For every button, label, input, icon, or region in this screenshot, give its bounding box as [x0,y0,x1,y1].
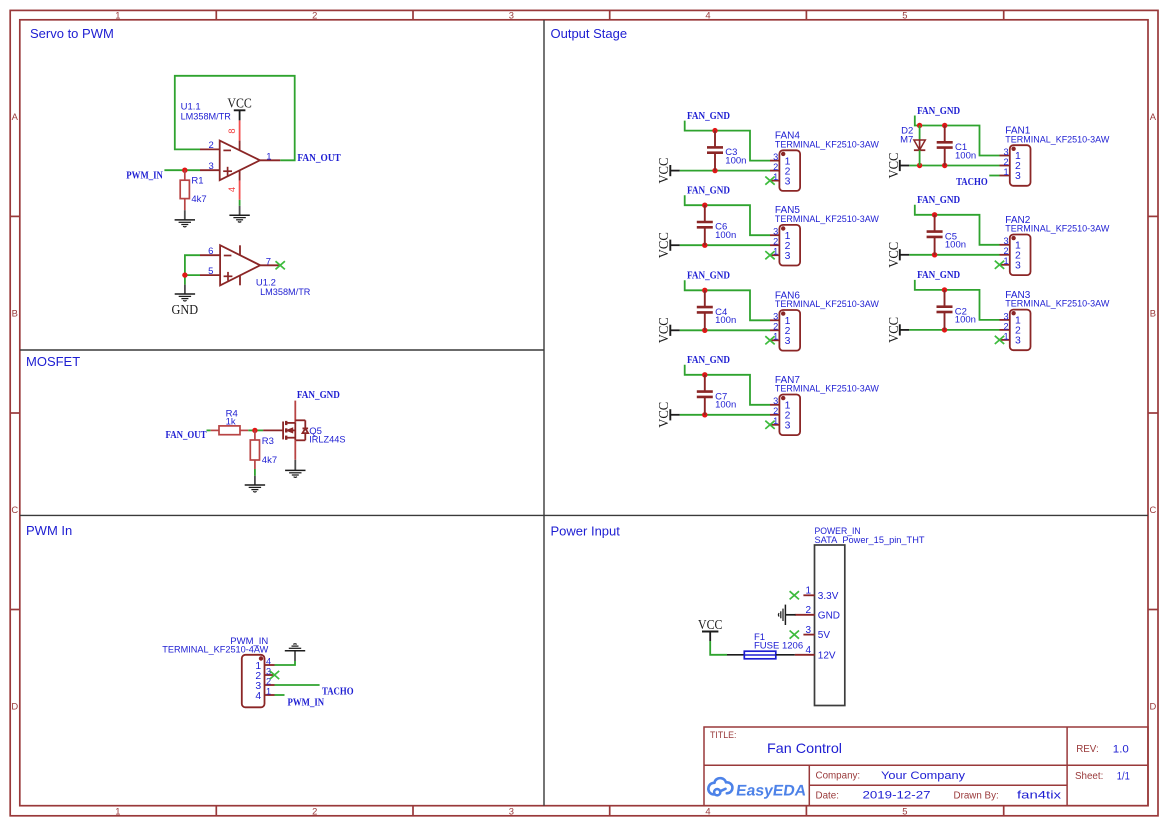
capacitor C7 [704,375,706,392]
connector PWM_IN inside pin numbers [255,661,261,702]
wire TACHO to FAN1 pin1 [989,175,999,177]
junction C4 bottom [702,328,707,333]
svg-text:4: 4 [705,805,710,816]
ground at POWER_IN pin2 (rotated) [786,614,796,616]
svg-text:5: 5 [902,805,907,816]
diode D2 junction bottom [917,163,922,168]
svg-text:FAN_OUT: FAN_OUT [166,430,207,441]
connector FAN5 outside pin numbers [773,227,778,257]
connector FAN5 inside pin numbers [785,231,791,262]
svg-text:GND: GND [172,303,199,318]
wire U1.1 pin4 to ground [239,200,241,206]
connector PWM_IN body [242,655,265,708]
svg-text:PWM_IN: PWM_IN [126,170,163,181]
wire to GND symbol [184,285,186,294]
svg-text:6: 6 [208,246,213,257]
svg-text:FAN_GND: FAN_GND [917,195,960,206]
svg-text:PWM_IN: PWM_IN [288,698,325,709]
svg-text:3: 3 [1015,336,1021,347]
connector FAN4 inside pin numbers [785,156,791,187]
svg-text:LM358M/TR: LM358M/TR [181,111,232,121]
connector FAN3 pin stubs [1000,320,1010,340]
wire FAN_GND net of FAN6 [685,280,770,320]
wire TACHO from pin2 [275,684,320,686]
capacitor C4 [704,290,706,307]
no-connect flag U1.2 pin 7 [276,261,285,269]
transistor Q5 (N-MOSFET) [283,420,308,440]
svg-text:Drawn By:: Drawn By: [954,791,999,802]
svg-text:A: A [1150,111,1157,122]
wire VCC net of FAN1 [909,165,999,167]
wire VCC net of FAN3 [909,329,999,331]
capacitor C1 [944,126,946,143]
connector FAN6 outside pin numbers [773,312,778,342]
svg-text:2: 2 [1003,321,1008,331]
svg-text:R1: R1 [191,176,203,187]
EasyEDA logo cloud [708,778,732,795]
U1.1 minus sign [223,149,231,151]
no-connect flag FAN6 pin1 [765,336,774,344]
wire VCC to fuse [710,641,727,655]
title block frame [704,727,1148,806]
wire R4 to gate [248,429,263,431]
connector FAN1 body [1010,145,1031,186]
junction C2 top [942,287,947,292]
svg-text:TERMINAL_KF2510-3AW: TERMINAL_KF2510-3AW [775,299,879,309]
svg-text:3: 3 [785,176,791,187]
svg-text:C: C [11,504,18,515]
ground below U1.1 pin 4 [229,215,249,222]
svg-text:TERMINAL_KF2510-3AW: TERMINAL_KF2510-3AW [1005,224,1109,234]
svg-text:SATA_Power_15_pin_THT: SATA_Power_15_pin_THT [815,535,925,545]
svg-text:4: 4 [227,187,237,192]
svg-text:2: 2 [773,162,778,172]
wire FAN_GND net of FAN3 [915,280,1000,320]
connector FAN5 pin1 marker dot [781,226,785,230]
section divider vertical [543,20,545,806]
junction C5 top [932,212,937,217]
connector FAN3 inside pin numbers [1015,316,1021,347]
wire FAN_GND net of FAN4 [685,121,770,161]
svg-text:D: D [11,701,18,712]
connector FAN5 body [779,225,800,266]
connector FAN7 body [779,395,800,436]
svg-text:M7: M7 [900,135,913,146]
svg-text:100n: 100n [715,230,736,241]
connector PWM_IN pin stubs [265,665,275,695]
ground below R1 [175,220,195,227]
svg-text:2: 2 [773,237,778,247]
svg-text:3: 3 [1003,311,1008,321]
connector FAN7 outside pin numbers [773,396,778,426]
POWER_IN pin stubs [795,595,815,655]
svg-text:3: 3 [805,625,811,636]
svg-text:A: A [12,111,19,122]
svg-text:Output Stage: Output Stage [551,26,628,41]
svg-text:3: 3 [773,396,778,406]
svg-text:5: 5 [902,10,907,21]
junction at R1 top [182,168,187,173]
svg-text:R3: R3 [262,436,274,447]
connector FAN1 inside pin numbers [1015,151,1021,182]
wire feedback loop net FAN_OUT (green rect) [175,76,295,161]
svg-text:3: 3 [209,161,214,172]
svg-text:EasyEDA: EasyEDA [735,783,807,800]
op-amp U1.2 [220,245,260,285]
connector FAN2 inside pin numbers [1015,241,1021,272]
connector POWER_IN body [815,545,845,706]
section divider middle horizontal [20,514,1148,516]
svg-text:100n: 100n [945,240,966,251]
wire pin4 to ground [275,661,296,665]
svg-text:TERMINAL_KF2510-3AW: TERMINAL_KF2510-3AW [775,214,879,224]
svg-text:TITLE:: TITLE: [710,730,736,740]
resistor R4 [211,429,219,431]
ground below Q5 source [285,470,305,477]
frame row letters [11,111,1156,711]
svg-text:2: 2 [773,322,778,332]
svg-text:FAN_GND: FAN_GND [917,106,960,117]
svg-text:1: 1 [805,586,811,597]
no-connect flag FAN3 pin1 [995,336,1004,344]
junction C2 bottom [942,327,947,332]
svg-text:FAN_GND: FAN_GND [297,390,340,401]
connector FAN2 pin stubs [1000,245,1010,265]
svg-text:C: C [1150,504,1157,515]
no-connect flag PWM_IN pin3 [270,671,279,679]
POWER_IN pin names [818,591,840,662]
svg-text:5V: 5V [818,630,831,641]
svg-text:TACHO: TACHO [956,177,988,188]
svg-text:FAN_GND: FAN_GND [687,111,730,122]
svg-text:MOSFET: MOSFET [26,354,80,369]
svg-text:2: 2 [1003,157,1008,167]
junction R4/R3/gate [252,428,257,433]
svg-text:4k7: 4k7 [262,455,277,466]
ground above PWM_IN pin4 (inverted) [285,644,305,651]
junction U1.2 pin5 [182,272,187,277]
ground below R3 [245,485,265,492]
svg-text:D: D [1150,701,1157,712]
connector FAN7 pin1 marker dot [781,396,785,400]
op-amp U1.1 [220,141,260,181]
connector FAN3 outside pin numbers [1003,311,1008,341]
svg-text:IRLZ44S: IRLZ44S [309,434,345,444]
svg-text:3.3V: 3.3V [818,591,839,602]
Q5 source wire [294,440,296,460]
capacitor C3 [714,131,716,148]
connector FAN6 pin1 marker dot [781,311,785,315]
svg-text:7: 7 [266,257,271,268]
U1.1 plus sign [223,167,232,176]
svg-text:FUSE 1206: FUSE 1206 [754,640,803,651]
svg-text:B: B [12,308,18,319]
svg-text:1/1: 1/1 [1117,770,1130,782]
svg-text:fan4tix: fan4tix [1017,790,1062,802]
svg-text:100n: 100n [715,315,736,326]
connector FAN5 pin stubs [770,235,779,255]
svg-text:Your Company: Your Company [881,770,966,782]
U1.2 plus sign [224,272,233,281]
wire VCC net of FAN5 [680,244,770,246]
U1.2 pin 6 stub [200,254,220,256]
connector FAN1 pin1 marker dot [1011,147,1015,151]
svg-text:1: 1 [266,686,271,696]
svg-text:2: 2 [312,10,317,21]
svg-text:3: 3 [773,227,778,237]
svg-text:100n: 100n [725,155,746,166]
diode D2 [919,126,921,141]
svg-text:3: 3 [773,152,778,162]
svg-text:100n: 100n [715,400,736,411]
Q5 gate pin stub [263,429,283,431]
connector FAN2 pin1 marker dot [1011,236,1015,240]
connector FAN4 pin1 marker dot [781,152,785,156]
connector FAN6 pin stubs [770,320,779,340]
svg-text:PWM In: PWM In [26,523,72,538]
svg-text:4: 4 [805,645,811,656]
svg-text:Sheet:: Sheet: [1075,771,1103,782]
junction C7 bottom [702,412,707,417]
svg-text:4: 4 [705,10,710,21]
junction C3 bottom [712,168,717,173]
svg-text:FAN_GND: FAN_GND [687,355,730,366]
svg-text:TERMINAL_KF2510-3AW: TERMINAL_KF2510-3AW [775,139,879,149]
svg-text:3: 3 [509,805,514,816]
connector FAN6 inside pin numbers [785,316,791,347]
wire VCC net of FAN6 [680,329,770,331]
svg-text:2: 2 [805,605,811,616]
svg-text:3: 3 [785,251,791,262]
svg-text:1: 1 [115,805,120,816]
wire VCC net of FAN7 [680,414,770,416]
svg-text:5: 5 [208,266,213,277]
wire U1.2 feedback [185,255,200,284]
junction C6 bottom [702,243,707,248]
wire VCC net of FAN2 [909,254,999,256]
svg-text:TERMINAL_KF2510-3AW: TERMINAL_KF2510-3AW [775,384,879,394]
svg-text:4k7: 4k7 [191,194,206,205]
svg-text:REV:: REV: [1076,744,1099,755]
U1.1 pin 2 stub [200,148,220,150]
svg-text:TERMINAL_KF2510-3AW: TERMINAL_KF2510-3AW [1005,299,1109,309]
connector FAN2 body [1010,235,1031,276]
svg-text:3: 3 [509,10,514,21]
svg-text:FAN_OUT: FAN_OUT [297,153,340,164]
resistor R3 [254,430,256,440]
junction C7 top [702,372,707,377]
fuse F1 [727,654,744,656]
U1.1 pin 8 wire (red) [239,120,241,140]
no-connect flag POWER_IN pin1 [790,591,799,599]
no-connect flag FAN7 pin1 [765,421,774,429]
U1.2 pin 7 output stub [260,264,280,266]
svg-text:LM358M/TR: LM358M/TR [260,287,311,297]
svg-text:3: 3 [1003,236,1008,246]
svg-text:1k: 1k [226,416,236,427]
svg-text:3: 3 [1015,171,1021,182]
connector PWM_IN pin1 marker dot [259,656,263,660]
wire FAN_OUT to R4 [207,429,211,431]
U1.1 pin 8 bar [239,141,241,151]
svg-text:2: 2 [312,805,317,816]
connector FAN3 body [1010,310,1031,351]
connector FAN2 outside pin numbers [1003,236,1008,266]
svg-text:TERMINAL_KF2510-3AW: TERMINAL_KF2510-3AW [1005,134,1109,144]
svg-text:1: 1 [266,152,271,163]
POWER_IN pin numbers [805,586,811,657]
svg-text:FAN_GND: FAN_GND [687,271,730,282]
U1.1 pin 4 wire (red) [239,181,241,200]
wire FAN_GND net of FAN7 [685,365,770,405]
junction C5 bottom [932,252,937,257]
U1.1 pin 4 bar [239,170,241,180]
wire R3 to ground [254,469,256,476]
junction C1 top [942,123,947,128]
connector FAN7 inside pin numbers [785,401,791,432]
svg-text:Fan Control: Fan Control [767,740,842,756]
svg-text:4: 4 [255,691,261,702]
capacitor C5 [934,215,936,232]
svg-text:2019-12-27: 2019-12-27 [863,790,931,802]
svg-text:100n: 100n [955,315,976,326]
U1.1 pin 3 stub [200,169,220,171]
junction C1 bottom [942,163,947,168]
svg-text:3: 3 [1003,147,1008,157]
svg-text:3: 3 [785,336,791,347]
wire R1 to ground [184,210,186,220]
no-connect flag FAN2 pin1 [995,261,1004,269]
svg-text:1: 1 [1003,167,1008,177]
wire FAN_GND to Q5 drain [294,401,296,423]
svg-text:4: 4 [266,656,271,666]
svg-text:B: B [1150,308,1156,319]
junction C6 top [702,203,707,208]
connector PWM_IN outside pin numbers [266,656,271,696]
section divider Servo/MOSFET [20,349,544,351]
wire PWM_IN from pin1 [275,694,285,696]
resistor R1 [184,170,186,180]
svg-text:TERMINAL_KF2510-4AW: TERMINAL_KF2510-4AW [162,645,268,655]
svg-text:Power Input: Power Input [551,524,621,539]
diode D2 junction top [917,123,922,128]
connector FAN4 body [779,150,800,191]
frame column numbers [115,10,907,817]
svg-text:3: 3 [773,312,778,322]
svg-text:FAN_GND: FAN_GND [917,270,960,281]
connector FAN4 outside pin numbers [773,152,778,182]
wire PWM_IN to pin3 [164,169,200,171]
svg-text:GND: GND [818,610,840,621]
svg-text:12V: 12V [818,650,836,661]
connector FAN3 pin1 marker dot [1011,311,1015,315]
svg-text:Company:: Company: [816,771,861,782]
svg-text:2: 2 [773,406,778,416]
svg-text:2: 2 [1003,246,1008,256]
connector FAN6 body [779,310,800,351]
no-connect flag FAN5 pin1 [765,251,774,259]
connector FAN4 pin stubs [770,161,779,181]
svg-text:8: 8 [227,128,237,133]
junction C4 top [702,288,707,293]
wire VCC net of FAN4 [680,170,770,172]
svg-text:Servo to PWM: Servo to PWM [30,26,114,41]
wire FAN_GND net of FAN1 [915,116,1000,156]
svg-text:2: 2 [209,140,214,151]
svg-text:100n: 100n [955,150,976,161]
svg-text:Date:: Date: [816,791,839,802]
svg-text:3: 3 [785,421,791,432]
ground below U1.2 [175,294,195,301]
U1.2 minus sign [224,255,232,257]
capacitor C2 [944,290,946,307]
svg-text:FAN_GND: FAN_GND [687,186,730,197]
connector FAN1 outside pin numbers [1003,147,1008,177]
no-connect flag FAN4 pin1 [765,177,774,185]
junction C3 top [712,128,717,133]
svg-text:3: 3 [1015,261,1021,272]
no-connect flag POWER_IN pin3 [790,631,799,639]
wire FAN_GND net of FAN5 [685,195,770,235]
wire FAN_GND net of FAN2 [915,205,1000,245]
svg-text:1.0: 1.0 [1113,743,1129,755]
U1.1 pin 1 output stub [260,159,280,161]
U1.2 pin 5 stub [200,274,220,276]
svg-text:TACHO: TACHO [322,687,354,698]
connector FAN1 pin stubs [1000,156,1010,176]
U1.2 power pin bars [239,245,241,255]
capacitor C6 [704,205,706,222]
connector FAN7 pin stubs [770,405,779,425]
svg-text:1: 1 [115,10,120,21]
